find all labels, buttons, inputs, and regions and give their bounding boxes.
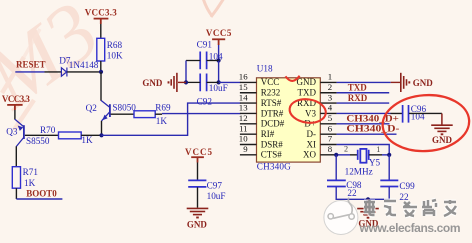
wire pin 3 RXD xyxy=(337,102,390,104)
svg-text:1N4148: 1N4148 xyxy=(69,60,99,70)
svg-text:15: 15 xyxy=(239,82,248,92)
svg-text:7: 7 xyxy=(328,134,333,144)
svg-text:Q3: Q3 xyxy=(6,126,18,136)
svg-text:VCC: VCC xyxy=(261,77,280,87)
svg-text:D-: D- xyxy=(307,129,317,139)
ground (sideways, left of C91/C92) xyxy=(169,73,187,92)
svg-text:S8050: S8050 xyxy=(112,102,136,112)
wire XI down to C99 xyxy=(388,155,390,180)
pin 12 DCD# stub xyxy=(240,123,257,125)
svg-text:1K: 1K xyxy=(24,178,36,188)
capacitor C99 22 xyxy=(380,180,398,186)
op-amp / IC U18 CH340G body xyxy=(257,78,321,162)
svg-text:RESET: RESET xyxy=(16,60,46,70)
transistor Q3 S8550 xyxy=(15,119,24,146)
svg-text:V3: V3 xyxy=(305,108,316,118)
svg-text:9: 9 xyxy=(243,144,248,154)
svg-text:10: 10 xyxy=(239,134,248,144)
ground (below crystal caps) xyxy=(357,199,379,217)
wire R68 to node A xyxy=(100,61,102,72)
wire VCC5 down xyxy=(218,45,220,61)
svg-text:DSR#: DSR# xyxy=(261,139,284,149)
pin 3 RXD stub xyxy=(320,102,336,104)
svg-text:TXD: TXD xyxy=(348,83,368,93)
wire Q3 collector down to R71 xyxy=(15,146,17,166)
svg-text:GND: GND xyxy=(413,78,434,88)
svg-text:2: 2 xyxy=(328,82,332,92)
svg-text:C91: C91 xyxy=(197,39,213,49)
wire node B to corner and up to pin 14 RTS# xyxy=(102,103,241,135)
wire Q2 emitter down to node B xyxy=(101,121,103,135)
watermark pink STM32 letters top-left xyxy=(0,0,116,130)
capacitor C97 10uF xyxy=(188,180,206,187)
svg-text:R70: R70 xyxy=(40,125,56,135)
wire R69 to pin 13 DTR# xyxy=(155,113,162,115)
svg-text:12: 12 xyxy=(239,113,248,123)
wire VCC3.3 to R68 xyxy=(100,24,102,38)
wire pin 2 TXD xyxy=(337,92,390,94)
svg-text:C99: C99 xyxy=(399,181,415,191)
capacitor C96 104 xyxy=(403,105,409,123)
pin 2 TXD stub xyxy=(320,92,336,94)
pin 15 R232 stub xyxy=(240,92,257,94)
svg-text:VCC3.3: VCC3.3 xyxy=(2,94,31,104)
svg-text:S8550: S8550 xyxy=(26,136,50,146)
svg-text:10uF: 10uF xyxy=(207,191,226,201)
node XI junction dot xyxy=(387,153,391,157)
node C92-right junction dot xyxy=(217,80,221,84)
wire C96 to ground xyxy=(409,112,442,114)
wire pin 8 XO to crystal left xyxy=(337,154,350,156)
pin 14 RTS# stub xyxy=(240,102,257,104)
svg-text:www.elecfans.com: www.elecfans.com xyxy=(359,221,461,235)
svg-text:U18: U18 xyxy=(257,63,273,73)
wire pin 5 D+ xyxy=(337,123,390,125)
svg-text:22: 22 xyxy=(399,192,409,202)
svg-text:GND: GND xyxy=(432,135,453,145)
wire pin 6 D- xyxy=(337,133,397,135)
svg-text:VCC3.3: VCC3.3 xyxy=(85,8,118,18)
junction dot crystal ground xyxy=(366,197,370,201)
pin 5 D+ stub xyxy=(320,123,336,125)
resistor R69 xyxy=(134,111,155,118)
svg-text:CH340_D-: CH340_D- xyxy=(346,124,399,134)
svg-text:BOOT0: BOOT0 xyxy=(26,189,57,199)
wire down to pin16 row xyxy=(218,61,220,83)
watermark elecfans logo circle xyxy=(324,198,358,235)
wire C97 to ground xyxy=(197,187,199,207)
svg-text:1: 1 xyxy=(328,72,332,82)
wire VCC5 to C97 xyxy=(197,163,199,181)
wire Q3 base to R70 xyxy=(25,134,59,136)
wire XO down to C98 xyxy=(335,155,337,180)
svg-text:R232: R232 xyxy=(261,88,281,98)
diode D7 xyxy=(61,68,67,77)
wire crystal right to XI net xyxy=(369,154,382,156)
svg-text:11: 11 xyxy=(239,123,247,133)
svg-text:4: 4 xyxy=(328,103,333,113)
pin 9 CTS# stub xyxy=(240,154,257,156)
svg-text:DCD#: DCD# xyxy=(261,119,285,129)
svg-text:10K: 10K xyxy=(107,50,123,60)
svg-text:GND: GND xyxy=(297,77,317,87)
svg-text:CH340G: CH340G xyxy=(257,162,291,172)
watermark pink strokes top-middle xyxy=(203,0,224,17)
ground (below C97) xyxy=(187,208,209,217)
svg-text:104: 104 xyxy=(209,52,223,62)
annotation red ellipse around C96/GND xyxy=(381,92,471,154)
pin 8 XO stub xyxy=(320,154,336,156)
pin 10 DSR# stub xyxy=(240,144,257,146)
svg-text:VCC5: VCC5 xyxy=(206,28,232,38)
svg-text:22: 22 xyxy=(347,188,357,198)
pin 7 XI stub xyxy=(320,144,336,146)
capacitor C98 22 xyxy=(327,180,346,186)
wire pin 7 XI to crystal right xyxy=(337,145,390,155)
annotation red ellipse around V3 xyxy=(288,97,327,125)
svg-text:3: 3 xyxy=(328,92,333,102)
node C91-right junction dot xyxy=(217,58,221,62)
resistor R70 xyxy=(59,132,82,139)
svg-text:R68: R68 xyxy=(107,40,123,50)
svg-text:RXD: RXD xyxy=(348,93,368,103)
pin 11 RI# stub xyxy=(240,133,257,135)
pin 13 DTR# stub xyxy=(240,112,257,114)
svg-text:CTS#: CTS# xyxy=(261,150,283,160)
svg-text:RTS#: RTS# xyxy=(261,98,282,108)
svg-text:16: 16 xyxy=(239,72,248,82)
wire VCC3.3 to Q3 emitter xyxy=(14,110,16,120)
watermark elecfans CJK text xyxy=(364,200,456,216)
resistor R71 xyxy=(12,167,20,189)
svg-text:VCC5: VCC5 xyxy=(185,147,213,157)
wire Q2 base to R69 xyxy=(111,113,134,115)
capacitor C91 104 xyxy=(200,52,206,70)
svg-text:1K: 1K xyxy=(156,116,168,126)
crystal Y5 12MHz xyxy=(358,150,369,160)
svg-text:RI#: RI# xyxy=(261,129,275,139)
pin 6 D- stub xyxy=(320,133,336,135)
svg-text:1K: 1K xyxy=(81,135,93,145)
svg-text:Q2: Q2 xyxy=(86,103,98,113)
svg-text:C92: C92 xyxy=(197,96,213,106)
node XO junction dot xyxy=(334,153,338,157)
wire pin 1 to ground xyxy=(337,81,391,83)
svg-text:R71: R71 xyxy=(23,167,39,177)
svg-text:XI: XI xyxy=(307,139,317,149)
svg-text:1: 1 xyxy=(376,145,380,154)
svg-text:XO: XO xyxy=(303,150,316,160)
annotation red arc at chip top xyxy=(286,76,300,81)
svg-text:GND: GND xyxy=(187,220,208,230)
svg-text:2: 2 xyxy=(344,145,348,154)
svg-text:13: 13 xyxy=(239,103,248,113)
svg-text:CH340_D+: CH340_D+ xyxy=(346,113,399,123)
wire RESET to D7 xyxy=(15,71,44,73)
svg-text:12MHz: 12MHz xyxy=(345,167,373,177)
ground (sideways, right of pin 1) xyxy=(391,73,410,92)
svg-text:14: 14 xyxy=(239,92,248,102)
capacitor C92 10uF xyxy=(200,74,206,92)
svg-text:8: 8 xyxy=(328,144,333,154)
wire to pin 16 VCC xyxy=(219,81,241,83)
wire R70 to node B xyxy=(81,134,100,136)
svg-text:5: 5 xyxy=(328,113,333,123)
svg-text:R69: R69 xyxy=(155,103,171,113)
watermark elecfans CJK text strokes xyxy=(364,200,456,216)
pin 1 GND stub xyxy=(320,81,336,83)
junction dot GND/C92 xyxy=(184,80,188,84)
wire C98/C99 bottoms to ground xyxy=(336,187,389,199)
svg-text:6: 6 xyxy=(328,123,333,133)
svg-text:10uF: 10uF xyxy=(209,83,228,93)
ground (below C96) xyxy=(431,113,453,134)
wire D7 to node A xyxy=(67,71,101,73)
resistor R68 xyxy=(97,38,105,61)
svg-text:C97: C97 xyxy=(207,180,223,190)
wire node A down to Q2 collector xyxy=(100,72,102,101)
node B junction dot xyxy=(99,133,103,137)
transistor Q2 S8050 xyxy=(101,100,110,121)
svg-text:DTR#: DTR# xyxy=(261,108,284,118)
pin 4 V3 stub xyxy=(320,112,336,114)
svg-text:TXD: TXD xyxy=(298,88,317,98)
node A junction dot xyxy=(99,70,103,74)
pin 16 VCC stub xyxy=(240,81,257,83)
wire R71 to BOOT0 xyxy=(15,188,17,199)
wire C91-left to C92-left xyxy=(185,61,187,83)
wire pin 4 V3 to C96 xyxy=(337,112,391,114)
svg-text:GND: GND xyxy=(142,78,163,88)
